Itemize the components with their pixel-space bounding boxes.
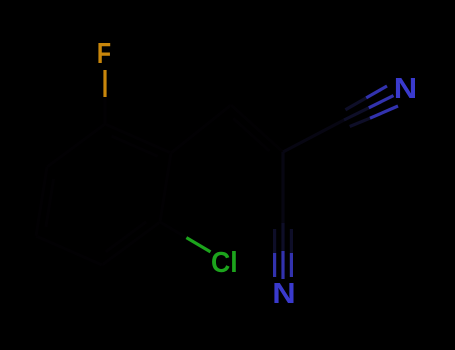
svg-text:N: N — [394, 72, 417, 105]
nitrile C#N upper: middle line nitrogen half — [369, 96, 394, 108]
ring bond C2-C3 — [102, 222, 160, 265]
ring bond C4-C5 — [36, 167, 47, 236]
ring double bond inner line C2=C3 — [106, 222, 147, 252]
C6-F bond carbon half — [103, 97, 106, 124]
svg-text:N: N — [272, 277, 295, 310]
nitrile upper: top outer line nitrogen half — [366, 86, 387, 98]
bond C1-CH (single) — [171, 105, 231, 153]
nitrile lower: right outer line nitrogen half — [290, 253, 293, 277]
svg-text:Cl: Cl — [211, 246, 238, 278]
nitrile upper: bottom outer line carbon half — [350, 118, 370, 126]
nitrile lower: left outer line carbon half — [273, 229, 276, 253]
C2-Cl bond chlorine half — [186, 238, 210, 252]
C2-Cl bond carbon half — [160, 222, 186, 238]
ring double bond inner line C6=C1 — [112, 136, 158, 156]
nitrile C#N upper: middle line carbon half — [344, 108, 369, 120]
vinyl double bond CH=Cmal inner line — [233, 118, 269, 151]
ring bond C3-C4 — [36, 236, 102, 265]
nitrile upper: bottom outer line nitrogen half — [370, 106, 398, 118]
nitrile C#N lower: triple bond middle line carbon half — [281, 223, 284, 251]
ring double bond inner line C4=C5 — [46, 179, 54, 227]
nitrile lower: right outer line carbon half — [290, 229, 293, 253]
bond Cmal-spC2 (single, to lower nitrile carbon) — [281, 152, 284, 223]
nitrile upper: top outer line carbon half — [345, 98, 366, 110]
C6-F bond fluorine half — [103, 70, 106, 97]
ring bond C1-C2 — [160, 153, 171, 222]
vinyl double bond CH=Cmal main line — [231, 105, 283, 152]
ring bond C5-C6 — [47, 124, 105, 167]
nitrile lower: left outer line nitrogen half — [273, 253, 276, 277]
bond Cmal-spC1 (single, to upper nitrile carbon) — [283, 120, 344, 152]
svg-text:F: F — [97, 36, 111, 69]
nitrile C#N lower: triple bond middle line nitrogen half — [281, 251, 284, 279]
benzene ring: bond C6-C1 — [105, 124, 171, 153]
